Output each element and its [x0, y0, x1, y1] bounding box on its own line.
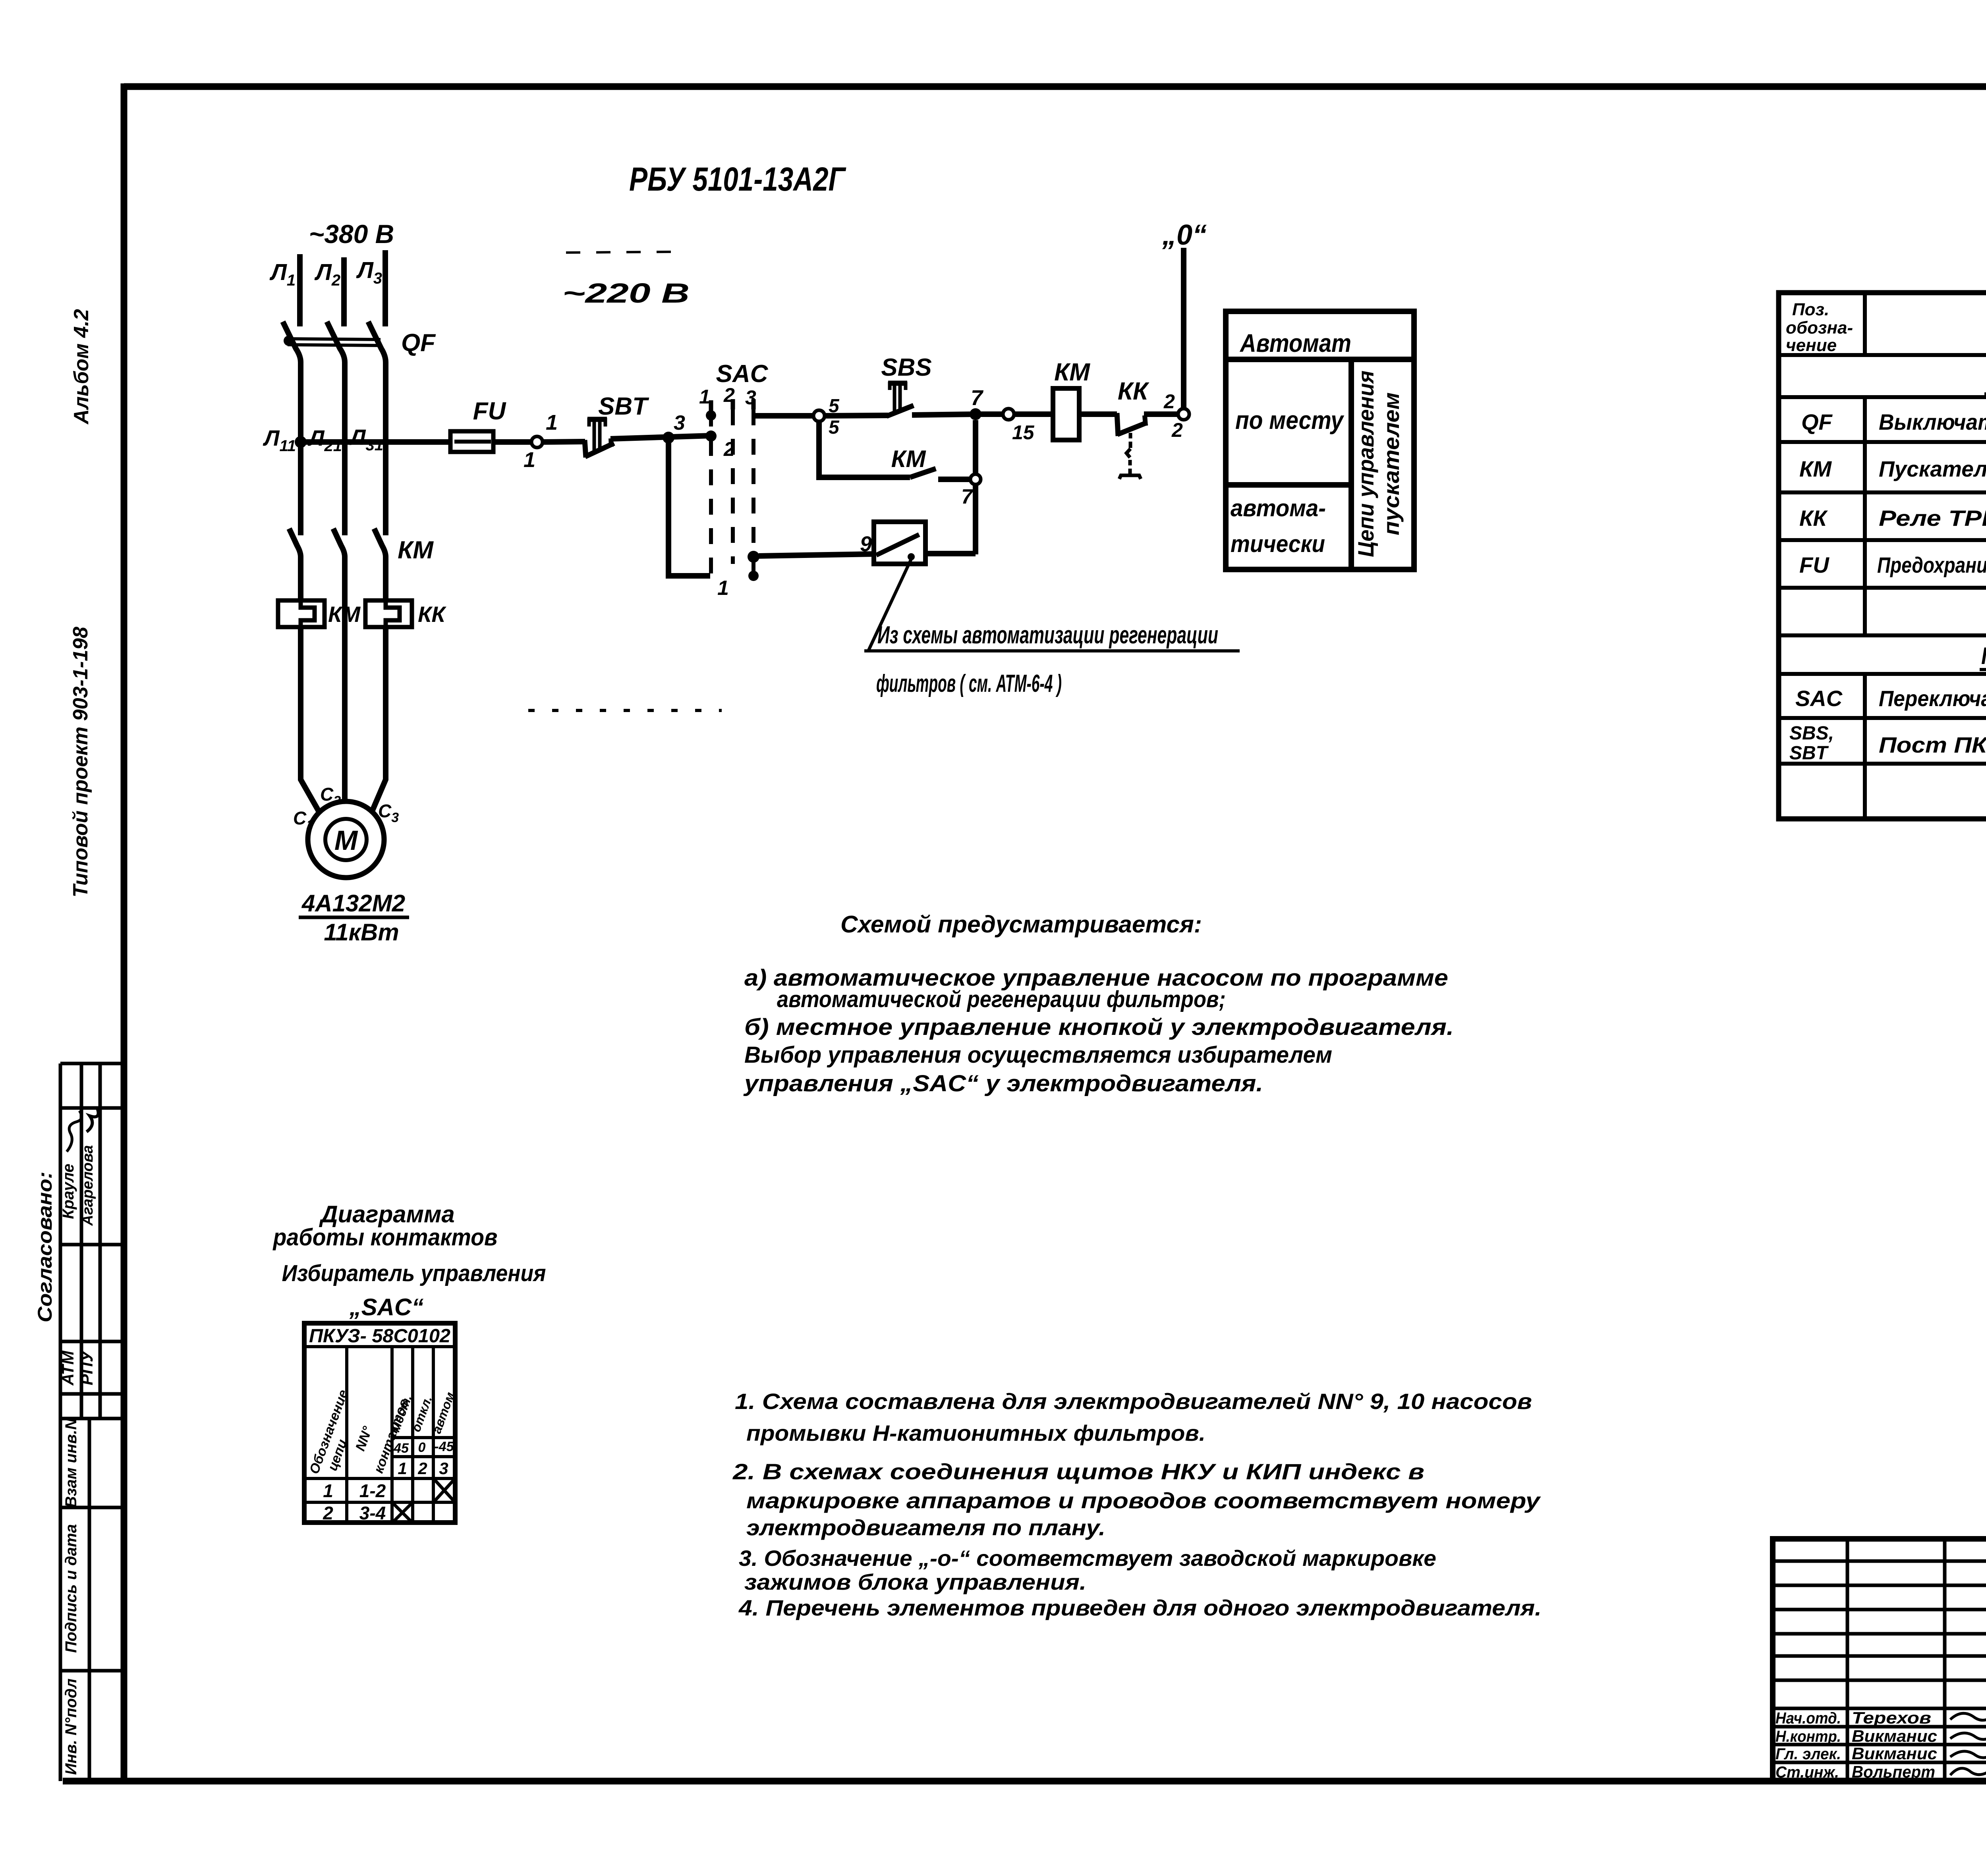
wire node3 elbow to SAC bottom [668, 438, 710, 576]
signature row Нач.отд Терехов [1775, 1708, 1986, 1727]
svg-text:~220 В: ~220 В [562, 278, 690, 309]
svg-text:SAC: SAC [716, 360, 769, 388]
wire heater3 to motor [373, 627, 386, 810]
pushbutton SBS [881, 354, 931, 416]
svg-text:Цепи управления: Цепи управления [1353, 371, 1378, 557]
row SBS SBT [1789, 723, 1986, 764]
svg-text:QF: QF [401, 329, 436, 357]
svg-text:2: 2 [1163, 390, 1175, 413]
svg-text:II Аппараты у электродвигат: II Аппараты у электродвигателя [1981, 643, 1986, 669]
svg-text:КМ: КМ [1799, 456, 1832, 481]
svg-text:Пост ПКЕ 222-2УЗ: Пост ПКЕ 222-2УЗ [1879, 732, 1986, 757]
circuit breaker QF [283, 322, 436, 371]
svg-text:КК: КК [1118, 378, 1149, 405]
svg-text:2: 2 [417, 1459, 427, 1478]
svg-text:тически: тически [1231, 531, 1325, 557]
row QF [1801, 407, 1986, 439]
row circuit 2 contacts 3-4 [323, 1503, 411, 1523]
svg-text:3: 3 [674, 411, 685, 434]
signature row Гл.элек Викманис [1775, 1744, 1986, 1763]
svg-text:1: 1 [398, 1459, 407, 1478]
row SAC [1795, 686, 1986, 711]
wire phase 2 mid [342, 371, 348, 535]
svg-text:3: 3 [439, 1459, 448, 1478]
row positions 1 2 3 [398, 1459, 448, 1478]
svg-text:FU: FU [1799, 552, 1830, 577]
svg-text:КК: КК [1799, 506, 1828, 531]
label автоматически [1231, 495, 1326, 557]
svg-text:автоматической регенерации ф: автоматической регенерации фильтров; [777, 986, 1226, 1012]
svg-text:SBT: SBT [598, 393, 649, 420]
node 2 terminal [1163, 390, 1189, 441]
pushbutton SBT [585, 393, 649, 457]
rotated header Обозначение цепи [307, 1388, 351, 1476]
automation scheme contact [874, 522, 925, 564]
wire automation box to riser [925, 551, 976, 556]
svg-text:работы контактов: работы контактов [272, 1224, 498, 1251]
signature row Ст.инж Вольперт [1775, 1762, 1986, 1781]
wire SBT to node 3 [610, 436, 711, 439]
svg-text:Согласовано:: Согласовано: [34, 1172, 56, 1322]
svg-text:45: 45 [393, 1441, 409, 1456]
wire FU to node 1 [493, 439, 532, 445]
selector switch SAC [699, 360, 769, 600]
svg-text:„0“: „0“ [1162, 219, 1207, 251]
svg-text:по месту: по месту [1235, 406, 1345, 434]
heater element KK phase3 [365, 600, 446, 627]
svg-text:Крауле: Крауле [60, 1164, 77, 1219]
svg-text:SBS,: SBS, [1789, 723, 1834, 744]
svg-text:1: 1 [717, 577, 729, 600]
svg-text:Из схемы автоматизации регенер: Из схемы автоматизации регенерации [877, 621, 1218, 649]
svg-text:SAC: SAC [1795, 686, 1843, 711]
row angles 45 0 -45 [393, 1439, 454, 1456]
svg-text:Взам инв.N: Взам инв.N [62, 1418, 80, 1507]
svg-text:1: 1 [699, 386, 710, 408]
mode table Автомат [1226, 311, 1414, 569]
svg-text:Викманис: Викманис [1852, 1744, 1937, 1763]
heading Диаграмма работы контактов [272, 1201, 546, 1320]
svg-text:5: 5 [829, 417, 840, 438]
svg-text:4А132М2: 4А132М2 [301, 890, 405, 917]
svg-text:пускателем: пускателем [1379, 392, 1404, 535]
signature row Н.контр Викманис [1775, 1727, 1986, 1745]
svg-text:15: 15 [1012, 421, 1035, 444]
wire control feed [301, 439, 450, 445]
wire SBS to node 7 [912, 414, 976, 415]
row KK [1799, 503, 1986, 535]
node 15 terminal [976, 409, 1035, 444]
row KM [1799, 455, 1986, 481]
svg-text:Викманис: Викманис [1852, 1727, 1937, 1745]
row circuit 1 contacts 1-2 [323, 1480, 454, 1501]
svg-text:автома-: автома- [1231, 495, 1326, 521]
contactor coil KM [1014, 359, 1090, 440]
wire node1 to SBT [543, 442, 585, 442]
contact diagram table [304, 1323, 455, 1523]
row FU [1799, 550, 1986, 582]
svg-text:РБУ 5101-13А2Г: РБУ 5101-13А2Г [629, 160, 846, 198]
svg-text:Выбор управления осуществляе: Выбор управления осуществляется избирате… [744, 1042, 1332, 1068]
svg-text:Пускатель ПАЕ 312: Пускатель ПАЕ 312 [1879, 456, 1986, 481]
svg-text:М: М [334, 825, 358, 856]
svg-text:Альбом 4.2: Альбом 4.2 [70, 309, 93, 425]
svg-text:1: 1 [546, 411, 558, 434]
svg-text:Выключатель АП50- 3МТ: Выключатель АП50- 3МТ [1879, 409, 1986, 434]
svg-text:Поз.: Поз. [1792, 300, 1829, 319]
svg-text:QF: QF [1801, 409, 1833, 434]
svg-text:„SAC“: „SAC“ [349, 1294, 424, 1320]
svg-text:АТМ: АТМ [58, 1350, 77, 1386]
margin text Альбом 4.2 [70, 309, 93, 425]
svg-text:Автомат: Автомат [1239, 329, 1351, 357]
title block frame [1773, 1539, 1986, 1781]
wire riser node7 [973, 420, 978, 554]
label Цепи управления пускателем [1353, 371, 1404, 557]
wire phase 1 top [297, 254, 303, 326]
node 5 terminal [813, 396, 840, 438]
wire SAC pos3 to node 5 [753, 413, 813, 419]
rotated header NN контактов [353, 1397, 412, 1475]
node L11 junction [295, 436, 307, 448]
contactor main contacts KM [289, 529, 434, 564]
approval stamp column [60, 1063, 124, 1781]
header Поз. обозначение [1786, 300, 1853, 355]
svg-text:управления „SAC“ у электрод: управления „SAC“ у электродвигателя. [743, 1071, 1263, 1096]
motor M [308, 801, 384, 878]
label Агарелова + signature [79, 1107, 98, 1226]
margin text Типовой проект 903-1-198 [69, 627, 92, 897]
thermal relay contact KK [1079, 378, 1178, 479]
svg-text:КМ: КМ [1054, 359, 1090, 386]
svg-text:2: 2 [323, 1503, 333, 1523]
leader line [864, 559, 1240, 651]
svg-text:б) местное управление кнопк: б) местное управление кнопкой у электрод… [744, 1014, 1454, 1040]
svg-text:1. Схема составлена для эле: 1. Схема составлена для электродвигателе… [735, 1389, 1532, 1414]
svg-text:1: 1 [323, 1480, 333, 1501]
svg-text:РПУ: РПУ [77, 1349, 96, 1385]
svg-text:1-2: 1-2 [359, 1480, 386, 1501]
auxiliary contact KM [819, 421, 972, 479]
svg-text:Нач.отд.: Нач.отд. [1775, 1710, 1841, 1727]
svg-text:Н.контр.: Н.контр. [1775, 1728, 1841, 1745]
svg-text:Ст.инж.: Ст.инж. [1775, 1764, 1839, 1781]
svg-text:Инв. N°подл: Инв. N°подл [62, 1679, 80, 1775]
svg-text:Гл. элек.: Гл. элек. [1775, 1745, 1841, 1763]
wire to 0 bus [1181, 248, 1186, 409]
svg-text:7: 7 [971, 386, 984, 410]
svg-text:-45: -45 [434, 1439, 454, 1454]
svg-text:Реле ТРН- 32: Реле ТРН- 32 [1879, 506, 1986, 531]
label 4А132М2 / 11кВт [299, 890, 409, 946]
svg-text:3. Обозначение „-о-“ соответс: 3. Обозначение „-о-“ соответствует завод… [739, 1546, 1436, 1571]
svg-text:Подпись и дата: Подпись и дата [62, 1524, 80, 1653]
section I Аппараты на НКУ [1984, 367, 1986, 394]
wire phase2 to motor [342, 558, 348, 802]
title block signature grid [1773, 1539, 1986, 1781]
svg-text:FU: FU [473, 398, 507, 425]
svg-text:Предохранитель ПРС-6-П: Предохранитель ПРС-6-П [1877, 552, 1986, 577]
svg-text:0: 0 [418, 1440, 426, 1455]
svg-text:электродвигателя по плану.: электродвигателя по плану. [746, 1515, 1105, 1540]
wire heater1 to motor [301, 627, 319, 811]
smudge dashes [566, 252, 675, 253]
svg-text:Схемой предусматривается:: Схемой предусматривается: [840, 911, 1202, 938]
svg-text:~380 В: ~380 В [309, 219, 394, 249]
label Крауле + signature [60, 1111, 81, 1219]
fuse FU [450, 398, 507, 452]
wire phase 3 top [383, 250, 388, 326]
svg-text:Переключатель ПКУЗ- 58С 0102: Переключатель ПКУЗ- 58С 0102 [1879, 686, 1986, 711]
svg-text:обозна-: обозна- [1786, 318, 1853, 338]
svg-text:маркировке аппаратов и пров: маркировке аппаратов и проводов соответс… [746, 1488, 1541, 1513]
node 1 terminal [524, 411, 558, 472]
wire phase 2 top [341, 257, 347, 326]
svg-text:3-4: 3-4 [359, 1503, 386, 1523]
svg-text:SBS: SBS [881, 354, 931, 381]
svg-text:Избиратель управления: Избиратель управления [282, 1260, 546, 1286]
svg-text:11кВт: 11кВт [324, 919, 399, 946]
svg-text:Агарелова: Агарелова [79, 1145, 96, 1226]
svg-text:зажимов блока управления.: зажимов блока управления. [744, 1569, 1086, 1594]
wire phase1 to heater [298, 558, 303, 601]
crease dotted line [528, 709, 722, 712]
svg-text:4. Перечень элементов привед: 4. Перечень элементов приведен для одног… [738, 1595, 1542, 1620]
svg-text:ПКУЗ- 58С0102: ПКУЗ- 58С0102 [309, 1326, 450, 1347]
svg-text:Вольперт: Вольперт [1852, 1762, 1935, 1781]
svg-text:фильтров ( см. АТМ-6-4 ): фильтров ( см. АТМ-6-4 ) [876, 670, 1062, 697]
section II Аппараты у электродвигателя [1980, 643, 1986, 670]
component list table [1779, 293, 1986, 819]
svg-text:Диаграмма: Диаграмма [319, 1201, 455, 1228]
node 3 junction [663, 411, 685, 444]
node 7 junction [970, 386, 984, 420]
wire phase 1 mid [298, 371, 303, 535]
wire phase3 to heater [383, 558, 388, 601]
svg-text:промывки Н-катионитных фильт: промывки Н-катионитных фильтров. [746, 1421, 1206, 1446]
heater element KM phase1 [278, 600, 361, 627]
svg-text:2. В схемах соединения щитов: 2. В схемах соединения щитов НКУ и КИП и… [732, 1459, 1424, 1484]
svg-text:КМ: КМ [398, 537, 434, 564]
node 7 lower terminal [961, 474, 981, 508]
wire 9 [759, 532, 874, 556]
svg-text:КМ: КМ [891, 446, 927, 472]
svg-text:1: 1 [524, 448, 535, 472]
svg-text:2: 2 [723, 438, 735, 460]
svg-text:Терехов: Терехов [1852, 1708, 1931, 1727]
wire phase 3 mid [383, 371, 388, 535]
svg-text:КК: КК [418, 602, 446, 627]
svg-text:чение: чение [1786, 336, 1837, 355]
svg-text:2: 2 [1171, 419, 1183, 441]
svg-text:КМ: КМ [328, 602, 361, 627]
svg-text:7: 7 [961, 485, 974, 508]
svg-text:Типовой проект 903-1-198: Типовой проект 903-1-198 [69, 627, 92, 897]
wire node5 to SBS [825, 415, 888, 416]
svg-text:SBT: SBT [1789, 743, 1829, 764]
